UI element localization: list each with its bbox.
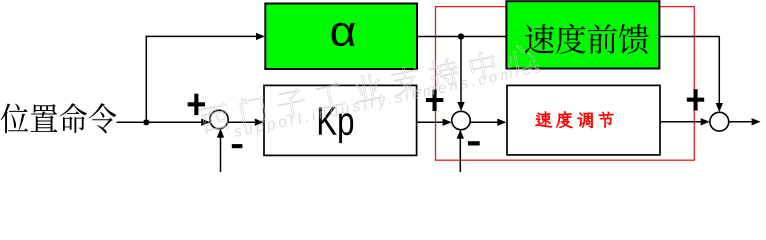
wire: position command input (117, 121, 212, 123)
summing junction S1 (210, 110, 228, 128)
wire: S1 to Kp (228, 121, 257, 123)
node: alpha output junction (458, 33, 464, 39)
wire: alpha block output (417, 36, 507, 38)
wire: S3 output (729, 121, 754, 123)
wire: speed regulator output to S3 (660, 121, 704, 123)
node: input branch junction (143, 119, 149, 125)
block speed regulator (507, 85, 660, 154)
watermark (decorative) (198, 42, 545, 141)
block Kp (position gain) (264, 85, 417, 155)
wire: position feedback from below into S1 (220, 135, 222, 172)
summing junction S3 (710, 112, 729, 131)
sign + at S2 (426, 98, 443, 102)
wire: speed feedback from below into S2 (459, 137, 461, 173)
wire: down into summing junction S2 (460, 37, 462, 105)
wire: branch up from junction (145, 36, 147, 123)
wire: Kp output to S2 (417, 121, 446, 123)
label: position command (1, 103, 117, 133)
block alpha (feedforward gain) (265, 4, 417, 70)
speed-loop boundary rectangle (436, 7, 695, 161)
wire: S2 to speed regulator (470, 121, 500, 123)
sign + at S1 (188, 102, 205, 106)
wire: speed feedforward output (659, 36, 719, 38)
sign - at S1 (232, 144, 243, 148)
wire: down into summing junction S3 (718, 36, 720, 106)
wire: into alpha block (146, 35, 258, 37)
sign + at S3 (687, 98, 704, 102)
block speed feedforward (506, 1, 659, 68)
summing junction S2 (452, 111, 470, 129)
sign - at S2 (468, 141, 480, 145)
